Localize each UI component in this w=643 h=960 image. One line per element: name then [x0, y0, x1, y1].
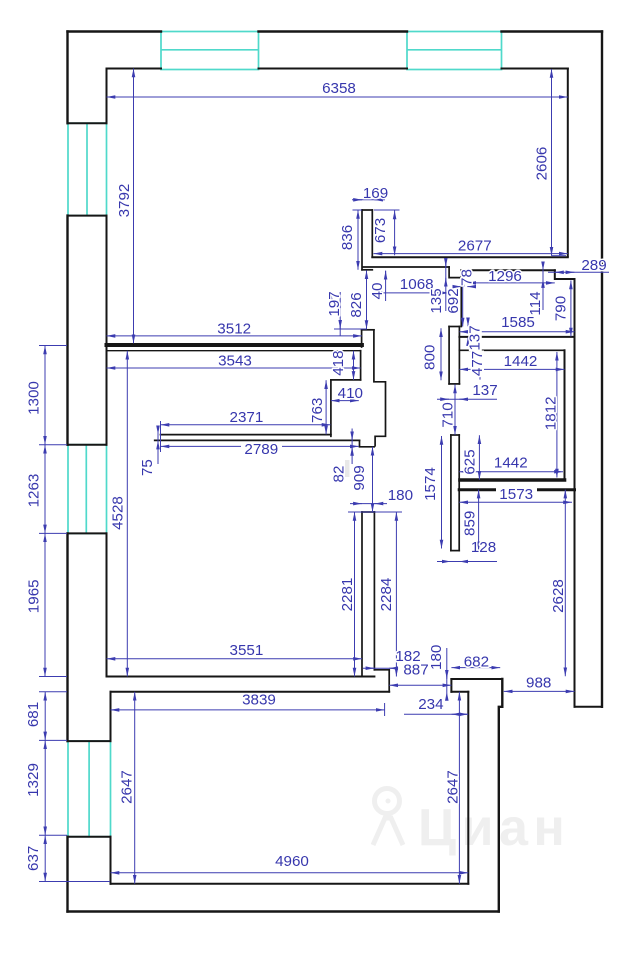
dim 197 stray arrow [330, 294, 332, 301]
svg-text:1329: 1329 [25, 763, 42, 797]
dim 410 line [331, 400, 359, 402]
dim 4960 line [111, 872, 469, 874]
partition top face middle room [107, 343, 362, 347]
dim 477 line [479, 352, 481, 379]
svg-text:763: 763 [309, 398, 326, 423]
window left 2 [68, 445, 107, 534]
corridor wall left line [361, 512, 363, 677]
outer wall right [601, 32, 603, 707]
svg-text:826: 826 [348, 292, 365, 317]
svg-text:2371: 2371 [230, 409, 264, 426]
dim 197 line [339, 292, 341, 336]
dim 2371 ext [160, 421, 162, 452]
dim 169 arrows [355, 199, 362, 201]
south wall right piece bottom face [451, 691, 468, 693]
middle section south wall bottom face left [111, 691, 390, 693]
stub wall 836 right line [371, 210, 373, 257]
svg-text:137: 137 [467, 325, 484, 350]
dim 1263 line [44, 445, 46, 534]
wall piece 1574 top cap [451, 434, 459, 436]
window cap w1 top [68, 122, 107, 124]
label background boxes [496, 487, 537, 502]
dim 75 line [157, 426, 159, 465]
dim 800 line [440, 328, 442, 380]
dim 763 line [325, 380, 327, 434]
svg-text:710: 710 [440, 402, 457, 427]
stub 182 right edge [388, 670, 390, 692]
dim 180b line [446, 648, 448, 692]
svg-text:909: 909 [351, 465, 368, 490]
stub wall 836 top cap [362, 209, 372, 211]
dim 1300 line [44, 346, 46, 445]
top room right inner wall [567, 69, 569, 257]
dim 2606 tick [552, 255, 567, 257]
wall piece 800 bottom cap [449, 383, 459, 385]
dim 2284 line [395, 512, 397, 677]
outer wall right bottom cap [575, 706, 603, 708]
dim 2677 line [374, 253, 568, 255]
south wall right piece top face [451, 678, 502, 680]
dim 1573 line [459, 501, 572, 503]
svg-text:114: 114 [527, 291, 544, 315]
svg-text:1296: 1296 [488, 268, 522, 285]
stub wall 836 bottom cap [362, 269, 372, 271]
step 135 [449, 267, 461, 278]
watermark stray mark [345, 460, 350, 477]
dim 692 line [462, 278, 464, 327]
nook wall vertical 763 [330, 380, 332, 436]
svg-text:1574: 1574 [422, 467, 439, 501]
dim 3543 line [107, 367, 361, 369]
svg-text:40: 40 [369, 283, 386, 300]
dim 2647L line [134, 692, 136, 884]
dim 234 line [404, 713, 468, 715]
left wall inner face top [106, 69, 108, 124]
wall piece 1574 right [458, 435, 460, 551]
wall resume piece left [361, 330, 363, 347]
dim 3792 line [133, 69, 135, 344]
dim 182 line [363, 667, 397, 669]
dim 137b line [437, 398, 497, 400]
window left 1 [68, 123, 107, 215]
svg-text:418: 418 [330, 350, 347, 375]
dim 2371 line [161, 424, 331, 426]
outer wall bottom-right vertical [499, 679, 503, 912]
outer wall left [66, 32, 68, 124]
dim 180a line [350, 503, 387, 505]
svg-text:6358: 6358 [322, 80, 356, 97]
dim 681 line [44, 692, 46, 741]
dim 682 line [451, 667, 500, 669]
left wall inner face bottom section a [110, 692, 112, 741]
window left 3 [68, 741, 111, 837]
central nook west wall [374, 330, 386, 446]
dim 1068 line [374, 292, 450, 294]
room 1573 top wall [459, 488, 574, 491]
wall top face of 1296 room [461, 269, 555, 271]
svg-text:135: 135 [428, 288, 445, 313]
svg-text:1263: 1263 [26, 474, 43, 508]
dim 988 line [504, 690, 575, 692]
svg-text:197: 197 [326, 291, 343, 316]
dim 1442b line [459, 471, 563, 473]
svg-text:2677: 2677 [458, 238, 492, 255]
svg-text:2281: 2281 [339, 578, 356, 612]
left wall inner face mid [106, 216, 108, 445]
window cap w2 top [68, 444, 107, 446]
svg-text:1300: 1300 [26, 381, 43, 415]
top room south wall bottom face [363, 266, 449, 268]
dim 673 tick [374, 209, 400, 211]
svg-text:4528: 4528 [110, 496, 127, 530]
svg-text:180: 180 [388, 487, 413, 504]
svg-text:234: 234 [418, 696, 443, 713]
dim 1585 line [459, 331, 574, 333]
svg-text:3551: 3551 [230, 642, 264, 659]
south wall right piece left edge [450, 679, 452, 692]
svg-text:Циан: Циан [418, 799, 570, 857]
dim 128 line [437, 561, 497, 563]
wall resume cap [362, 329, 374, 331]
svg-text:410: 410 [338, 385, 363, 402]
window top 1 [161, 32, 259, 70]
svg-text:988: 988 [526, 675, 551, 692]
dim 1329 line [44, 740, 46, 835]
dim 2281 tick [348, 511, 402, 513]
dim 3551 line [107, 658, 363, 660]
dim 3512 line [107, 335, 362, 337]
dim 78 arrows [456, 286, 462, 288]
dim 3839 line [111, 709, 385, 711]
svg-text:289: 289 [581, 257, 606, 274]
svg-text:2606: 2606 [533, 147, 550, 181]
wall piece 800 top cap [449, 326, 459, 328]
svg-text:673: 673 [372, 218, 389, 243]
bottom room bottom inner face [111, 883, 469, 885]
dim 625 line [478, 435, 480, 480]
window cap w3 bottom [68, 836, 111, 838]
dim 2628 line [564, 490, 566, 677]
counter wall step [360, 440, 375, 446]
dim 909 line [372, 447, 374, 512]
dim 6358 line [107, 96, 568, 98]
dim 82 line [351, 429, 353, 465]
svg-text:681: 681 [25, 702, 42, 727]
dim 1442a line [459, 368, 564, 370]
bottom room right wall [467, 692, 469, 884]
window cap w1 bottom [68, 215, 107, 217]
svg-text:1965: 1965 [26, 579, 43, 613]
outer wall bottom [68, 910, 499, 912]
window top 2 [407, 32, 502, 70]
svg-text:1442: 1442 [504, 353, 538, 370]
svg-text:682: 682 [464, 653, 489, 670]
dim 836 line [357, 210, 359, 270]
dim 418 line [353, 351, 355, 380]
dim 710 line [454, 385, 456, 435]
svg-text:137: 137 [472, 382, 497, 399]
dim 114 line [542, 264, 544, 311]
jog 289 [555, 270, 575, 279]
corridor wall right line [373, 512, 375, 670]
svg-text:180: 180 [428, 645, 445, 670]
dim 40 line [385, 271, 387, 301]
stub wall 836 left line [361, 210, 363, 270]
corridor wall top cap [362, 511, 374, 513]
svg-text:2789: 2789 [244, 441, 278, 458]
top wall inner face right [502, 68, 568, 70]
svg-text:800: 800 [421, 345, 438, 370]
counter wall B [155, 439, 360, 441]
bottom-left column ticks [39, 691, 67, 693]
room 1812 bottom wall [460, 478, 565, 482]
dim 673 line [394, 211, 396, 256]
dim 887 line [389, 684, 451, 686]
dim 137a arrows [467, 321, 469, 327]
svg-text:637: 637 [25, 846, 42, 871]
svg-text:859: 859 [461, 511, 478, 536]
svg-text:2647: 2647 [118, 770, 135, 804]
dim 1574 line [441, 436, 443, 549]
dim 135 line [445, 259, 447, 312]
left column ticks [39, 345, 67, 347]
svg-text:82: 82 [330, 466, 347, 483]
svg-text:2647: 2647 [444, 770, 461, 804]
top room south wall top face [372, 256, 568, 258]
svg-text:2628: 2628 [550, 579, 567, 613]
svg-text:1442: 1442 [494, 455, 528, 472]
dim 2789 line [161, 445, 359, 447]
svg-text:1812: 1812 [543, 396, 560, 430]
svg-text:3543: 3543 [218, 353, 252, 370]
dim 197 tick [334, 328, 367, 330]
dim 859 line [478, 490, 480, 551]
svg-text:836: 836 [339, 225, 356, 250]
wall piece 1574 left [450, 435, 452, 551]
stub 182 top [374, 669, 389, 671]
svg-text:78: 78 [459, 269, 476, 286]
room 1812 right wall [564, 350, 566, 480]
window cap w2 bottom [68, 532, 107, 534]
svg-text:3512: 3512 [217, 320, 251, 337]
watermark logo pin [373, 789, 403, 846]
dim 2606 line [551, 69, 553, 256]
wall south of 1585 room [459, 336, 574, 338]
top wall inner face left [107, 68, 162, 70]
left wall inner face bottom section b [110, 837, 112, 884]
svg-text:75: 75 [139, 459, 156, 476]
svg-text:1573: 1573 [499, 486, 533, 503]
dim 826 line [366, 270, 368, 329]
wall piece 800 left [448, 327, 450, 384]
svg-text:625: 625 [461, 449, 478, 474]
outer wall top [68, 30, 162, 32]
svg-text:477: 477 [469, 351, 486, 376]
svg-text:1585: 1585 [501, 314, 535, 331]
svg-text:887: 887 [403, 662, 428, 679]
dim 637 line [44, 835, 46, 881]
dim 790 line [570, 281, 572, 337]
nook wall horizontal 410 [331, 379, 361, 381]
svg-text:128: 128 [471, 539, 496, 556]
svg-text:692: 692 [445, 288, 462, 313]
dim 169 line [352, 199, 385, 201]
dim 1965 line [44, 533, 46, 676]
dim 1296 line [467, 282, 555, 284]
svg-text:2284: 2284 [378, 578, 395, 612]
svg-text:169: 169 [363, 185, 388, 202]
counter wall A [161, 434, 331, 436]
room 1812 top wall [459, 349, 564, 351]
dim 836 tick [353, 209, 363, 211]
left wall inner face lower [106, 533, 108, 676]
wall piece 800 right [458, 327, 460, 384]
dim 289 line [548, 271, 609, 273]
partition bottom face middle room [107, 350, 361, 352]
dim 2647R line [458, 692, 460, 884]
top wall inner face mid [259, 68, 408, 70]
svg-text:3792: 3792 [116, 184, 133, 218]
svg-text:3839: 3839 [242, 692, 276, 709]
dim 2281 line [354, 512, 356, 677]
wall piece 1574 bottom cap [451, 550, 459, 552]
svg-text:790: 790 [552, 296, 569, 321]
dim 4528 line [126, 351, 128, 677]
window cap w3 top [68, 740, 111, 742]
dim 1812 line [556, 352, 558, 478]
shaft wall 692 [460, 270, 462, 326]
svg-text:4960: 4960 [275, 853, 309, 870]
right wall inner face lower [574, 279, 576, 707]
middle section south wall top face [107, 676, 375, 678]
nook wall vertical 418 [360, 351, 362, 380]
dim 3839 tick [384, 703, 386, 716]
